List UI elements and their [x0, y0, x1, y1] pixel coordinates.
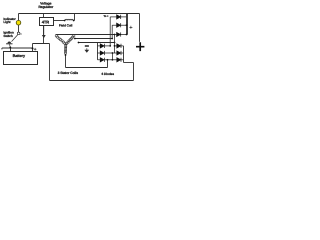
wire cathode bus [126, 14, 128, 35]
node rail1 right [114, 34, 116, 36]
node D8 left [112, 52, 114, 54]
wire phase P4 [111, 53, 113, 60]
ignition switch lever [12, 35, 18, 42]
wire stator bottom across [66, 67, 108, 69]
node battery plus terminal [32, 47, 34, 49]
ignition switch tick [20, 33, 22, 35]
minus sign [85, 45, 89, 46]
small plus [129, 26, 132, 29]
wire top bus [19, 13, 140, 15]
wire rail3 minus bus [79, 42, 115, 44]
node field coil left [64, 20, 66, 22]
wire rail2 [75, 38, 112, 40]
wire regulator bottom [43, 26, 45, 44]
svg-text:4TR: 4TR [42, 20, 49, 25]
stator coil A [55, 35, 66, 45]
wire regulator feed [43, 14, 45, 18]
wire horizontal to left vertical [33, 43, 50, 45]
voltage regulator U1 [40, 18, 54, 26]
stator coil C [64, 44, 67, 54]
node D4 right [109, 45, 111, 47]
svg-text:Light: Light [3, 20, 10, 24]
node D9 left [112, 59, 114, 61]
node D7 left [114, 45, 116, 47]
wire bottom bus [50, 80, 134, 82]
wire phase P2 [111, 25, 113, 38]
wire battery left stub [10, 48, 12, 52]
node stator bottom [65, 54, 67, 56]
big plus output [136, 42, 144, 51]
field current arrow [42, 35, 46, 38]
diode D9 [112, 58, 123, 62]
wire phase P3 [114, 35, 116, 54]
wire phase P1 [109, 17, 111, 46]
svg-text:6 Diodes: 6 Diodes [102, 72, 115, 76]
svg-text:Battery: Battery [13, 54, 26, 58]
diode D2 [112, 23, 126, 27]
node cathode bus row2 [126, 24, 128, 26]
wire upper cathode bus [127, 14, 129, 35]
wire field coil riser [74, 14, 76, 21]
battery [4, 52, 38, 65]
wire battery plus stub [32, 48, 34, 51]
wire battery plus riser [32, 44, 34, 49]
wire battery top left end tick [1, 48, 3, 49]
wire rail jog [124, 62, 134, 64]
diode D7 [115, 44, 124, 48]
wire left vertical [49, 44, 51, 81]
wire regulator to field coil [54, 20, 65, 22]
node rail3 left [78, 42, 80, 44]
diode D6 [98, 58, 113, 62]
wire stator bottom lead [65, 55, 67, 68]
node stator center [65, 43, 67, 45]
wire lower-left anode bus [97, 43, 99, 60]
battery plus sign [34, 48, 37, 51]
switch lower stub [8, 44, 11, 47]
node cathode bus row3 [126, 34, 128, 36]
node stator bottom to diode [107, 59, 109, 61]
diode D3 [115, 32, 127, 36]
stator coil B [66, 35, 75, 45]
switch lower contact dome [8, 42, 12, 44]
node field coil right [73, 20, 75, 22]
wire right rail [133, 63, 135, 81]
wire stator rail1 [56, 34, 115, 36]
node rail2 left [74, 38, 76, 40]
svg-text:To +: To + [103, 14, 109, 18]
svg-text:Switch: Switch [3, 34, 13, 38]
svg-text:3 Stator Coils: 3 Stator Coils [58, 71, 79, 75]
indicator lamp [16, 20, 21, 25]
ground [86, 48, 88, 50]
svg-text:Regulator: Regulator [38, 5, 54, 9]
svg-text:Field Coil: Field Coil [59, 23, 73, 27]
diode D8 [112, 51, 123, 55]
wire stator bottom up [107, 60, 109, 68]
wire lamp drop [18, 14, 20, 21]
wire lamp to switch [18, 25, 20, 32]
ignition switch contact [17, 32, 20, 35]
wire plus drop [139, 14, 141, 42]
diode D1 [110, 15, 126, 19]
node battery left terminal [9, 47, 11, 49]
field coil L1 [65, 19, 73, 20]
node rail2 right [111, 38, 113, 40]
wire diode bus right lower [123, 46, 125, 63]
diode D5 [98, 51, 113, 55]
switch lower contact bar [6, 43, 12, 44]
node rail3 right [114, 42, 116, 44]
wire battery top [2, 47, 33, 49]
diode D4 [98, 44, 111, 48]
